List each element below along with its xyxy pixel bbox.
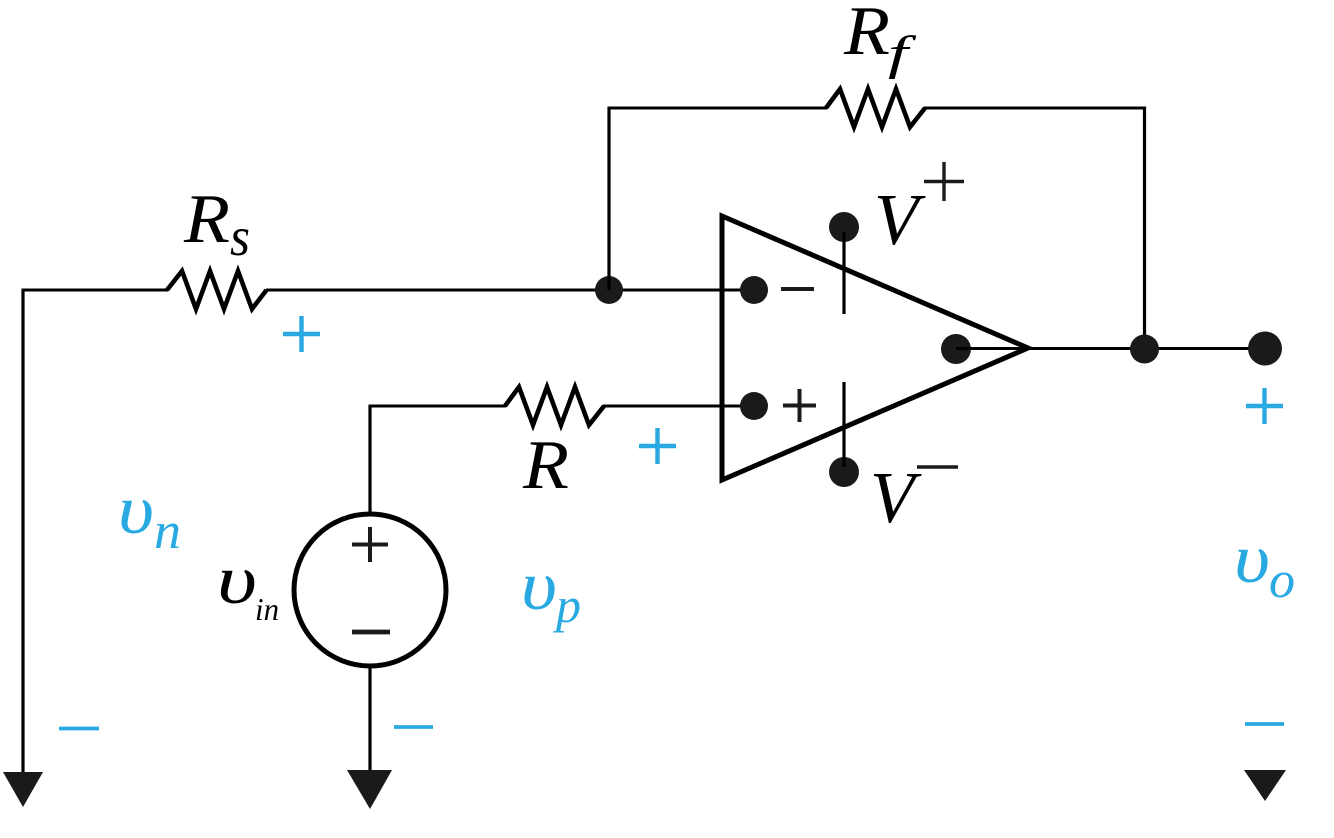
wire: left horizontal into Rs [22,289,169,292]
svg-text:n: n [154,503,181,560]
label vn [118,472,181,560]
cyan minus near right ground [1245,722,1284,726]
svg-text:υ: υ [217,542,257,619]
plus sign at non-inverting input [783,389,816,422]
node: output junction dot [1130,335,1159,364]
svg-text:p: p [553,577,581,633]
pin dot: inverting input [740,276,768,304]
wire: feedback left vertical up [607,107,610,291]
voltage source vin circle [294,514,446,666]
minus sign inside source [352,630,390,635]
wire: non-inverting branch vertical from source [368,406,371,516]
resistor Rs [167,271,267,309]
label Rs [183,181,250,267]
label V- [870,457,958,538]
label Rf [843,0,917,80]
minus sign at inverting input [781,287,814,291]
label vin [217,542,279,627]
terminal dot: vo [1248,332,1282,366]
ground (below source) [347,770,392,809]
wire: feedback right vertical down to output [1143,107,1146,350]
wire: source to resistor R [369,405,507,408]
wire: left vertical from Rs node down to ground [21,290,24,773]
cyan minus near middle ground [394,725,433,729]
wire: V- pin stub [842,382,845,467]
svg-text:o: o [1269,552,1295,609]
node: feedback junction dot [595,276,623,304]
label vo [1234,521,1295,609]
svg-text:R: R [183,181,230,258]
svg-text:υ: υ [1234,521,1270,598]
svg-text:in: in [255,591,279,627]
svg-text:R: R [522,427,569,504]
svg-text:V: V [870,457,922,538]
wire: Rs to inverting input [266,289,752,292]
pin dot: V+ supply [829,212,859,242]
wire: source bottom to ground [368,666,371,771]
resistor Rf [826,89,925,127]
wire: Rf top right segment [924,107,1146,110]
cyan plus near vo terminal [1246,388,1283,424]
pin dot: V- supply [829,457,859,487]
wire: Rf top left segment [608,107,828,110]
cyan minus near left ground [59,727,99,731]
wire: V+ pin stub [842,232,845,314]
label vp [521,548,581,633]
cyan plus near Rs (vn polarity) [283,316,320,352]
label V+ [874,162,964,260]
pin dot: output inside triangle [941,334,971,364]
svg-text:υ: υ [521,548,557,625]
resistor R [505,387,604,425]
wire: output dot to apex [956,347,1028,350]
svg-text:s: s [230,206,250,267]
svg-text:V: V [874,179,926,260]
wire: output horizontal [1028,347,1265,350]
svg-text:R: R [843,0,890,70]
ground (left, node vn reference) [3,772,43,807]
plus sign inside source [352,527,388,562]
cyan plus near R (vp polarity) [639,428,676,464]
wire: R to non-inverting input [603,405,752,408]
ground (right, below vo terminal) [1244,770,1286,801]
op-amp U1 triangle [722,216,1028,480]
svg-text:υ: υ [118,472,154,549]
pin dot: non-inverting input [740,392,768,420]
